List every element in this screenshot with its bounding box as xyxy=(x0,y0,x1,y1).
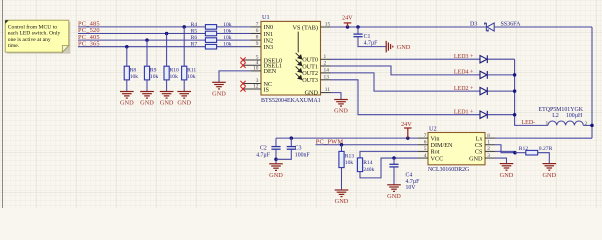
pin 3 stub U2 right xyxy=(485,157,495,159)
junction R13 xyxy=(340,143,344,147)
capacitor C3 xyxy=(287,147,296,150)
junction node PC_405 xyxy=(145,38,149,42)
wire LED4 cathode xyxy=(488,74,515,76)
svg-text:GND: GND xyxy=(397,44,411,51)
svg-text:10k: 10k xyxy=(150,74,159,80)
svg-text:15: 15 xyxy=(325,22,331,28)
pin IN2 stub U1 xyxy=(251,39,261,41)
svg-text:10: 10 xyxy=(253,65,259,71)
wire R14 bottom to VCC xyxy=(360,158,418,178)
svg-text:10k: 10k xyxy=(223,28,232,34)
pin OUT3 stub U1 xyxy=(321,79,331,81)
capacitor C4 xyxy=(389,164,398,167)
pin Vin stub U2 xyxy=(418,137,428,139)
wire R12 to ground xyxy=(538,153,550,164)
svg-text:time.: time. xyxy=(8,43,20,49)
svg-text:11: 11 xyxy=(325,87,330,93)
wire CS1 xyxy=(495,145,515,153)
wire OUT3 to LED xyxy=(331,80,481,115)
ground under R11 xyxy=(177,92,191,99)
svg-text:GND: GND xyxy=(160,100,174,107)
svg-text:GND: GND xyxy=(177,100,191,107)
wire R9 to ground xyxy=(146,80,148,92)
svg-text:4: 4 xyxy=(424,153,427,159)
pin 8 stub U2 right xyxy=(485,137,495,139)
svg-text:8: 8 xyxy=(487,133,490,139)
svg-text:GND: GND xyxy=(140,100,154,107)
wire C1 to ground xyxy=(358,37,386,47)
pin GND stub U1 xyxy=(321,92,331,94)
pin IS stub U1 xyxy=(244,88,262,90)
svg-text:12: 12 xyxy=(253,84,259,90)
svg-text:1: 1 xyxy=(324,54,327,60)
note: control from MCU xyxy=(5,20,70,53)
junction 24V U2 xyxy=(406,136,410,140)
resistor R8 xyxy=(124,66,129,80)
svg-text:LED4 +: LED4 + xyxy=(454,70,474,76)
pin OUT2 stub U1 xyxy=(321,72,331,74)
wire OUT2 to LED xyxy=(331,73,481,91)
svg-text:10k: 10k xyxy=(187,74,196,80)
svg-text:GND: GND xyxy=(120,100,134,107)
svg-text:5: 5 xyxy=(424,146,427,152)
svg-text:GND: GND xyxy=(469,155,483,162)
svg-text:R10: R10 xyxy=(170,68,180,74)
svg-text:VS (TAB): VS (TAB) xyxy=(293,24,318,31)
pin DEN stub U1 xyxy=(251,70,261,72)
svg-text:10k: 10k xyxy=(223,42,232,48)
svg-text:C2: C2 xyxy=(260,146,267,152)
ground under R9 xyxy=(140,92,154,99)
wire net PC_365 xyxy=(78,46,251,48)
U1 internal switch symbol xyxy=(296,32,302,80)
pin DSEL0 stub U1 xyxy=(244,59,262,61)
svg-text:LED3 +: LED3 + xyxy=(454,54,474,60)
pin DSEL1 stub U1 xyxy=(244,64,262,66)
wire R13 top xyxy=(341,145,343,152)
pin Rot stub U2 xyxy=(418,150,428,152)
wire R10 to ground xyxy=(166,80,168,92)
pin VS stub U1 xyxy=(321,26,331,28)
svg-text:C1: C1 xyxy=(364,34,371,40)
wire to R12 xyxy=(515,152,526,154)
junction 24V rail xyxy=(346,25,350,29)
svg-text:GND: GND xyxy=(500,172,514,179)
pin VCC stub U2 xyxy=(418,157,428,159)
wire OUT0 to LED xyxy=(331,58,481,60)
svg-text:PC_365: PC_365 xyxy=(78,40,100,47)
power port 24V (U2) xyxy=(404,128,412,138)
svg-text:IN3: IN3 xyxy=(264,44,274,51)
svg-text:C3: C3 xyxy=(295,146,302,152)
ground under R8 xyxy=(120,92,134,99)
pin DIM/EN stub U2 xyxy=(418,144,428,146)
diode D3 SS36FA xyxy=(485,23,495,31)
svg-text:GND: GND xyxy=(542,172,556,179)
wire DEN to ground xyxy=(219,71,251,82)
svg-text:GND: GND xyxy=(305,89,319,96)
ground at U2 pin 3 xyxy=(500,164,514,171)
wire net PC_520 xyxy=(78,33,251,35)
diode LED2 string xyxy=(480,87,487,95)
svg-text:GND: GND xyxy=(212,91,226,98)
resistor R5 xyxy=(205,31,216,36)
svg-text:7: 7 xyxy=(424,133,427,139)
svg-text:R6: R6 xyxy=(191,35,198,41)
ground at C2 xyxy=(269,164,283,171)
junction LED bus LED2 xyxy=(513,89,517,93)
svg-text:IS: IS xyxy=(264,86,270,93)
ground at C1 (rotated) xyxy=(386,41,393,53)
no-connect X on IS xyxy=(240,86,245,91)
svg-text:LED1 +: LED1 + xyxy=(454,110,474,116)
no-connect X on DSEL1 xyxy=(240,63,245,68)
junction C3 xyxy=(290,136,294,140)
svg-text:100µH: 100µH xyxy=(566,113,583,119)
svg-text:BTS52004EKAXUMA1: BTS52004EKAXUMA1 xyxy=(261,98,321,104)
svg-text:100nF: 100nF xyxy=(295,152,311,158)
svg-text:2: 2 xyxy=(324,61,327,67)
wire R11 to ground xyxy=(183,80,185,92)
ground under R10 xyxy=(160,92,174,99)
wire 24V rail to D3 xyxy=(331,26,593,28)
svg-text:LED2 +: LED2 + xyxy=(454,86,474,92)
wire Lx to rail xyxy=(495,137,592,139)
svg-text:10k: 10k xyxy=(130,74,139,80)
svg-text:Control from MCU to: Control from MCU to xyxy=(8,24,57,31)
resistor R10 xyxy=(164,66,169,80)
svg-text:10k: 10k xyxy=(223,35,232,41)
svg-text:GND: GND xyxy=(269,172,283,179)
wire LED1 cathode xyxy=(488,114,515,116)
resistor R13 xyxy=(339,151,344,167)
resistor R7 xyxy=(205,44,216,49)
wire C2 top xyxy=(275,138,277,147)
junction CS sense xyxy=(513,151,517,155)
svg-text:PC_PWM: PC_PWM xyxy=(316,139,344,146)
svg-text:10k: 10k xyxy=(345,160,354,166)
ground at C4 xyxy=(387,185,401,192)
svg-text:GND: GND xyxy=(387,193,401,200)
ground at R12 xyxy=(543,164,557,171)
pin OUT0 stub U1 xyxy=(321,58,331,60)
svg-text:U2: U2 xyxy=(429,126,437,133)
pin IN0 stub U1 xyxy=(251,26,261,28)
svg-text:13: 13 xyxy=(324,74,330,80)
svg-text:GND: GND xyxy=(334,108,348,115)
wire C2 bottom to ground xyxy=(275,149,277,164)
ground at U1 pin 11 xyxy=(334,100,348,107)
svg-text:R11: R11 xyxy=(187,68,196,74)
svg-text:10k: 10k xyxy=(170,74,179,80)
junction LED bus LED1 xyxy=(513,113,517,117)
svg-text:10V: 10V xyxy=(406,185,417,191)
wire U2 GND xyxy=(495,158,507,164)
svg-text:6: 6 xyxy=(424,140,427,146)
wire net PC_485 xyxy=(78,26,251,28)
op-amp U1 body BTS52004 xyxy=(261,21,321,95)
junction C2/C3 bottom xyxy=(274,158,278,162)
wire right edge vertical xyxy=(591,27,593,138)
svg-text:each LED switch. Only: each LED switch. Only xyxy=(8,31,61,37)
wire C3 bottom xyxy=(276,149,291,159)
wire LED- bus vertical xyxy=(515,59,548,125)
wire Rot to R14 xyxy=(360,151,418,158)
pin 2 stub U2 right xyxy=(485,150,495,152)
svg-text:1: 1 xyxy=(487,140,490,146)
capacitor C2 xyxy=(271,147,280,150)
svg-text:R13: R13 xyxy=(345,154,355,160)
junction node PC_520 xyxy=(165,32,169,36)
wire C3 top xyxy=(290,138,292,147)
wire to R8 xyxy=(126,47,128,66)
ground at R13 xyxy=(335,190,349,197)
wire R8 to ground xyxy=(126,80,128,92)
pin IN3 stub U1 xyxy=(251,46,261,48)
power port 24V (top) xyxy=(344,23,352,27)
wire to R10 xyxy=(166,34,168,67)
svg-text:R5: R5 xyxy=(191,28,198,34)
junction C4 xyxy=(392,156,396,160)
no-connect X on NC xyxy=(240,81,245,86)
svg-text:10k: 10k xyxy=(223,22,232,28)
wire net PC_405 xyxy=(78,39,251,41)
svg-text:R9: R9 xyxy=(150,68,157,74)
svg-text:240k: 240k xyxy=(363,167,374,173)
svg-text:GND: GND xyxy=(335,198,349,205)
ground at DEN xyxy=(212,82,226,89)
svg-text:14: 14 xyxy=(324,68,330,74)
svg-text:OUT3: OUT3 xyxy=(302,77,318,84)
inductor L2 100uH xyxy=(548,121,583,125)
svg-text:24V: 24V xyxy=(342,15,353,22)
diode LED4 string xyxy=(480,71,487,79)
junction LED bus LED4 xyxy=(513,73,517,77)
wire L2 to rail xyxy=(583,124,592,126)
wire to R11 xyxy=(183,27,185,66)
resistor R14 xyxy=(357,158,362,172)
svg-text:one is active at any: one is active at any xyxy=(8,37,51,43)
resistor R9 xyxy=(144,66,149,80)
svg-text:R7: R7 xyxy=(191,42,198,48)
svg-text:C4: C4 xyxy=(406,173,413,179)
junction node PC_365 xyxy=(125,45,129,49)
svg-text:SS36FA: SS36FA xyxy=(501,22,522,28)
resistor R11 xyxy=(182,66,187,80)
svg-text:L2: L2 xyxy=(552,113,559,119)
svg-text:NCL30160DR2G: NCL30160DR2G xyxy=(428,167,469,173)
resistor R6 xyxy=(205,38,216,43)
svg-text:R14: R14 xyxy=(363,160,373,166)
svg-text:R12: R12 xyxy=(519,146,529,152)
junction node PC_485 xyxy=(182,25,186,29)
pin 1 stub U2 right xyxy=(485,144,495,146)
wire Vin rail xyxy=(276,137,418,139)
svg-text:2: 2 xyxy=(585,121,588,127)
svg-text:24V: 24V xyxy=(401,121,412,128)
wire R13 to ground xyxy=(341,168,343,190)
svg-text:D3: D3 xyxy=(470,22,477,28)
svg-text:4.7µF: 4.7µF xyxy=(364,41,379,47)
no-connect X on DSEL0 xyxy=(240,57,245,62)
wire C4 top xyxy=(393,158,395,164)
pin IN1 stub U1 xyxy=(251,33,261,35)
wire C1 top xyxy=(357,27,359,34)
svg-text:U1: U1 xyxy=(262,14,270,21)
svg-text:R4: R4 xyxy=(191,22,198,28)
resistor R12 xyxy=(526,150,538,155)
diode LED3 string xyxy=(480,55,487,63)
resistor R4 xyxy=(205,25,216,30)
svg-text:1: 1 xyxy=(546,120,549,126)
svg-text:LED-: LED- xyxy=(522,120,536,126)
svg-text:0.27R: 0.27R xyxy=(539,146,553,152)
wire CS2 xyxy=(495,151,515,152)
wire PC_PWM xyxy=(316,144,419,146)
diode LED1 string xyxy=(480,111,487,119)
pin OUT1 stub U1 xyxy=(321,65,331,67)
regulator U2 body NCL30160 xyxy=(428,133,485,165)
capacitor C1 xyxy=(353,34,362,37)
wire C4 to ground xyxy=(393,167,395,185)
svg-text:VCC: VCC xyxy=(431,155,444,162)
svg-text:DEN: DEN xyxy=(264,68,277,75)
wire OUT1 to LED xyxy=(331,66,481,75)
svg-text:R8: R8 xyxy=(130,68,137,74)
wire LED2 cathode xyxy=(488,90,515,92)
wire U1 GND xyxy=(331,93,342,100)
wire to R9 xyxy=(146,40,148,66)
svg-text:4.7µF: 4.7µF xyxy=(256,152,271,158)
svg-text:2: 2 xyxy=(487,146,490,152)
junction C1 xyxy=(356,25,360,29)
wire LED3 cathode xyxy=(488,58,515,60)
svg-text:4.7µF: 4.7µF xyxy=(406,179,421,185)
pin NC stub U1 xyxy=(244,83,262,85)
junction L2 / D3 rail xyxy=(590,124,594,128)
svg-text:3: 3 xyxy=(487,153,490,159)
